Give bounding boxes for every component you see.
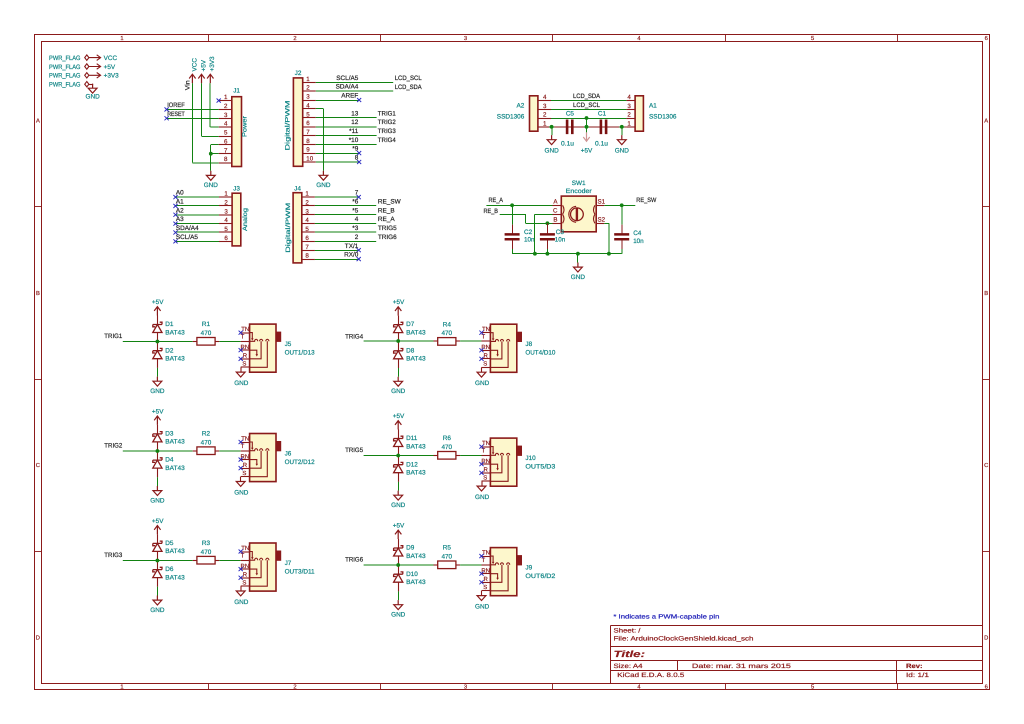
no-connect X on J6 TN bbox=[239, 440, 243, 444]
svg-text:R: R bbox=[243, 462, 248, 469]
connector J4 body bbox=[293, 193, 302, 263]
jack J9 refdes bbox=[525, 565, 532, 572]
svg-text:2: 2 bbox=[293, 35, 296, 42]
wire TRIG5 bbox=[364, 455, 434, 457]
A2 pin 4 stub bbox=[538, 100, 551, 102]
connector J3 body bbox=[232, 193, 241, 246]
diode D2 value BAT43 bbox=[165, 356, 185, 363]
diode D12 value BAT43 bbox=[406, 470, 426, 477]
encoder pin C name bbox=[553, 207, 558, 214]
jack J10 pin T stub bbox=[482, 455, 491, 457]
label RE_B at J4 bbox=[378, 207, 395, 214]
connector J2 body bbox=[293, 78, 302, 166]
jack J9 pin RN stub bbox=[482, 573, 491, 575]
label TRIG6 bbox=[345, 557, 363, 564]
diode D4 pins bbox=[157, 451, 159, 478]
junction TRIG6 bbox=[396, 563, 400, 567]
jack J7 pin RN name bbox=[241, 563, 250, 570]
J2 pin 5 number bbox=[306, 111, 310, 118]
ground GND under D8 bbox=[391, 377, 406, 396]
svg-text:GND: GND bbox=[85, 93, 100, 100]
svg-text:6: 6 bbox=[306, 120, 310, 127]
jack J7 pin TN name bbox=[241, 545, 249, 552]
J2 pin 9 name *9 bbox=[352, 146, 358, 153]
diode D1 pins bbox=[157, 316, 159, 342]
svg-text:9: 9 bbox=[306, 147, 310, 154]
label TRIG4 at J2 bbox=[378, 137, 396, 144]
encoder SW1 body bbox=[561, 196, 596, 232]
jack J8 pin T name bbox=[481, 334, 485, 341]
wire C4 to rail bbox=[621, 240, 623, 253]
encoder SW1 value Encoder bbox=[566, 188, 593, 195]
connector J4 value Digital/PWM bbox=[285, 203, 292, 253]
svg-text:Analog: Analog bbox=[242, 207, 249, 231]
svg-text:GND: GND bbox=[150, 498, 165, 505]
svg-text:R1: R1 bbox=[202, 321, 211, 328]
junction C1 right bbox=[620, 125, 624, 129]
svg-text:BAT43: BAT43 bbox=[406, 553, 426, 560]
wire C2 to rail bbox=[512, 240, 514, 253]
jack J5 value OUT1/D13 bbox=[285, 349, 315, 356]
capacitor C2 refdes bbox=[524, 229, 533, 236]
wire D6 to GND bbox=[157, 587, 159, 596]
diode D12 bbox=[394, 462, 403, 472]
power symbol +5V above D9 bbox=[393, 523, 405, 539]
svg-text:3: 3 bbox=[627, 103, 631, 110]
J3 pin 1 number bbox=[224, 191, 228, 198]
capacitor C5 refdes bbox=[566, 111, 575, 118]
J3 pin 3 number bbox=[224, 208, 228, 215]
no-connect X on J2 pin9 bbox=[357, 151, 361, 155]
wire J2 pin1 LCD_SCL bbox=[316, 82, 393, 84]
jack J9 pin TN name bbox=[482, 550, 490, 557]
svg-text:S: S bbox=[242, 360, 246, 367]
svg-text:GND: GND bbox=[571, 274, 586, 281]
label LCD_SDA between displays bbox=[573, 93, 601, 100]
wire +3V3 to J1 pin 4 bbox=[210, 83, 219, 127]
svg-text:3: 3 bbox=[224, 112, 228, 119]
wire IOREF bbox=[167, 109, 219, 111]
J3 pin 4 stub bbox=[219, 223, 232, 225]
diode D8 pins bbox=[398, 341, 400, 368]
svg-text:J3: J3 bbox=[233, 185, 240, 192]
label TRIG2 at J2 bbox=[378, 119, 396, 126]
resistor R3 value 470 bbox=[201, 549, 212, 556]
wire SDA/A4 to J3 bbox=[176, 231, 220, 233]
svg-text:470: 470 bbox=[201, 330, 212, 337]
J3 pin 3 name A2 bbox=[176, 207, 184, 214]
connector A2 body bbox=[530, 96, 538, 131]
jack J9 body bbox=[490, 548, 516, 596]
junction at J1 pin 7 bbox=[209, 152, 213, 156]
no-connect X on J7 R bbox=[239, 576, 243, 580]
no-connect X on J4 pin8 bbox=[357, 257, 361, 261]
jack J8 bump bbox=[517, 332, 522, 341]
svg-text:TRIG4: TRIG4 bbox=[345, 333, 363, 340]
svg-text:RE_SW: RE_SW bbox=[636, 197, 657, 204]
jack J10 pin S stub bbox=[482, 480, 491, 482]
resistor R1 refdes bbox=[202, 321, 211, 328]
diode D4 refdes bbox=[165, 457, 174, 464]
svg-text:OUT1/D13: OUT1/D13 bbox=[285, 349, 315, 356]
wire J2 pin3 AREF bbox=[316, 100, 359, 102]
svg-text:TRIG1: TRIG1 bbox=[378, 110, 396, 117]
svg-text:470: 470 bbox=[441, 330, 452, 337]
J1 pin 1 stub bbox=[219, 100, 232, 102]
diode D4 bbox=[153, 458, 162, 468]
jack J9 internal contacts bbox=[490, 556, 509, 591]
jack J9 pin R name bbox=[484, 576, 489, 583]
resistor R6 stubs bbox=[434, 455, 461, 457]
J3 pin 4 number bbox=[224, 217, 228, 224]
wire S2 drop bbox=[604, 223, 609, 253]
connector J1 refdes bbox=[233, 87, 240, 94]
diode D7 bbox=[394, 322, 403, 332]
A2 pin 3 stub bbox=[538, 109, 551, 111]
svg-text:GND: GND bbox=[544, 148, 559, 155]
wire J1 pin 7 to GND bbox=[211, 154, 219, 171]
svg-text:D8: D8 bbox=[406, 347, 415, 354]
svg-text:RN: RN bbox=[241, 563, 250, 570]
wire D2 to GND bbox=[157, 368, 159, 377]
label RE_B bbox=[484, 208, 499, 215]
A1 pin 2 stub bbox=[626, 118, 635, 120]
svg-text:8: 8 bbox=[306, 138, 310, 145]
resistor R6 value 470 bbox=[441, 444, 452, 451]
resistor R3 stubs bbox=[193, 560, 220, 562]
power symbol +5V above D11 bbox=[393, 413, 405, 429]
resistor R5 refdes bbox=[443, 545, 452, 552]
ground GND at J9 sleeve bbox=[475, 591, 490, 611]
svg-text:3: 3 bbox=[464, 35, 467, 42]
jack J6 value OUT2/D12 bbox=[285, 459, 315, 466]
power symbol +3V3 bbox=[89, 73, 119, 80]
svg-text:*5: *5 bbox=[352, 207, 358, 214]
J3 pin 6 number bbox=[224, 235, 228, 242]
svg-text:LCD_SDA: LCD_SDA bbox=[395, 84, 423, 91]
no-connect X on J8 R bbox=[479, 357, 483, 361]
jack J7 pin R name bbox=[243, 571, 248, 578]
wire R1 to J5 bbox=[219, 341, 240, 343]
power symbol +5V at J1 bbox=[198, 59, 207, 83]
svg-text:6: 6 bbox=[224, 138, 228, 145]
power symbol +3V3 bbox=[207, 56, 216, 83]
J1 pin 6 number bbox=[224, 138, 228, 145]
svg-text:LCD_SCL: LCD_SCL bbox=[573, 102, 600, 109]
svg-text:KiCad E.D.A. 8.0.5: KiCad E.D.A. 8.0.5 bbox=[617, 672, 685, 679]
label TRIG1 bbox=[104, 333, 122, 340]
wire J2 pin8 TRIG4 bbox=[316, 144, 377, 146]
svg-text:RN: RN bbox=[481, 344, 490, 351]
jack J6 pin RN name bbox=[241, 453, 250, 460]
svg-text:TRIG3: TRIG3 bbox=[104, 552, 122, 559]
J4 pin 6 stub bbox=[302, 241, 315, 243]
jack J6 bump bbox=[276, 442, 281, 451]
svg-text:TRIG6: TRIG6 bbox=[345, 557, 363, 564]
svg-text:GND: GND bbox=[475, 380, 490, 387]
J2 pin 7 number bbox=[306, 129, 310, 136]
J2 pin 9 stub bbox=[303, 153, 316, 155]
jack J5 pin T name bbox=[241, 334, 245, 341]
junction TRIG1 bbox=[156, 340, 160, 344]
svg-text:A1: A1 bbox=[649, 103, 657, 110]
svg-text:3: 3 bbox=[464, 684, 467, 691]
junction RE_A C2 bbox=[510, 203, 514, 207]
note * Indicates a PWM-capable pin bbox=[613, 614, 719, 621]
jack J5 pin T stub bbox=[241, 341, 250, 343]
connector J1 value Power bbox=[241, 115, 248, 137]
resistor R6 refdes bbox=[443, 435, 452, 442]
svg-text:C1: C1 bbox=[598, 111, 607, 118]
svg-text:7: 7 bbox=[224, 147, 228, 154]
svg-text:TRIG2: TRIG2 bbox=[104, 443, 122, 450]
svg-text:A2: A2 bbox=[516, 103, 524, 110]
svg-text:*3: *3 bbox=[352, 225, 358, 232]
wire J4 pin6 TRIG6 bbox=[315, 241, 376, 243]
diode D8 refdes bbox=[406, 347, 415, 354]
svg-text:BAT43: BAT43 bbox=[165, 356, 185, 363]
no-connect X on J9 RN bbox=[479, 572, 483, 576]
svg-text:+5V: +5V bbox=[152, 409, 164, 416]
no-connect X on J5 R bbox=[239, 357, 243, 361]
J1 pin 3 stub bbox=[219, 118, 232, 120]
jack J8 pin R stub bbox=[482, 358, 491, 360]
power flag PWR_FLAG #3 bbox=[49, 73, 89, 80]
J1 pin 5 number bbox=[224, 130, 228, 137]
power symbol VCC bbox=[189, 58, 198, 83]
jack J6 pin S name bbox=[242, 470, 246, 477]
svg-text:TN: TN bbox=[482, 550, 490, 557]
capacitor C4 refdes bbox=[633, 230, 642, 237]
wire R5 to J9 bbox=[460, 564, 481, 566]
power symbol +5V above D1 bbox=[152, 299, 164, 315]
power flag PWR_FLAG #1 bbox=[49, 55, 89, 62]
svg-text:Vin: Vin bbox=[184, 80, 191, 90]
title block Size bbox=[614, 663, 644, 670]
svg-text:SDA/A4: SDA/A4 bbox=[336, 84, 359, 91]
wire TRIG2 bbox=[123, 450, 193, 452]
svg-text:RE_A: RE_A bbox=[489, 197, 504, 204]
svg-text:S: S bbox=[242, 470, 246, 477]
encoder pin A stub bbox=[553, 205, 562, 207]
A2 pin 3 number bbox=[543, 103, 547, 110]
diode D2 bbox=[153, 348, 162, 358]
svg-text:GND: GND bbox=[475, 494, 490, 501]
ground GND under D2 bbox=[150, 377, 165, 396]
J2 pin 8 number bbox=[306, 138, 310, 145]
J2 pin 3 name AREF bbox=[341, 93, 358, 100]
wire SCL/A5 to J3 bbox=[176, 241, 220, 243]
jack J5 body bbox=[250, 324, 276, 372]
svg-text:A1: A1 bbox=[176, 199, 184, 206]
diode D10 pins bbox=[398, 565, 400, 592]
svg-text:J10: J10 bbox=[525, 455, 536, 462]
svg-text:R5: R5 bbox=[443, 545, 452, 552]
jack J7 pin S name bbox=[242, 579, 246, 586]
svg-text:D3: D3 bbox=[165, 431, 174, 438]
label TRIG2 bbox=[104, 443, 122, 450]
wire Vin/VCC to J1 pin 8 bbox=[192, 83, 218, 163]
no-connect X on A0 bbox=[173, 195, 177, 199]
diode D5 pins bbox=[157, 534, 159, 560]
svg-text:D2: D2 bbox=[165, 347, 174, 354]
resistor R5 bbox=[438, 561, 456, 569]
diode D7 value BAT43 bbox=[406, 329, 426, 336]
svg-text:SSD1306: SSD1306 bbox=[497, 113, 525, 120]
J4 pin 6 name 2 bbox=[355, 234, 359, 241]
J1 pin 3 number bbox=[224, 112, 228, 119]
svg-text:+5V: +5V bbox=[152, 299, 164, 306]
svg-text:4: 4 bbox=[224, 121, 228, 128]
J2 pin 1 number bbox=[306, 76, 310, 83]
label TRIG5 bbox=[345, 447, 363, 454]
svg-text:1: 1 bbox=[224, 94, 228, 101]
svg-text:TRIG6: TRIG6 bbox=[378, 234, 397, 241]
jack J6 pin T name bbox=[241, 443, 245, 450]
svg-text:TRIG5: TRIG5 bbox=[345, 447, 363, 454]
jack J5 pin TN stub bbox=[241, 332, 250, 334]
svg-text:GND: GND bbox=[391, 502, 406, 509]
svg-text:OUT4/D10: OUT4/D10 bbox=[525, 350, 555, 357]
svg-text:RN: RN bbox=[481, 458, 490, 465]
diode D6 value BAT43 bbox=[165, 574, 185, 581]
svg-text:SDA/A4: SDA/A4 bbox=[176, 225, 199, 232]
jack J7 pin R stub bbox=[241, 577, 250, 579]
svg-text:S: S bbox=[483, 361, 487, 368]
svg-text:2: 2 bbox=[305, 200, 309, 207]
label Vin bbox=[184, 80, 191, 90]
connector A2 value SSD1306 bbox=[497, 113, 525, 120]
svg-text:B: B bbox=[553, 216, 557, 223]
svg-text:470: 470 bbox=[201, 439, 212, 446]
jack J6 refdes bbox=[285, 451, 292, 458]
J4 pin 6 number bbox=[305, 235, 309, 242]
svg-text:TN: TN bbox=[241, 435, 249, 442]
svg-text:2: 2 bbox=[224, 103, 228, 110]
svg-text:Date: mar. 31 mars 2015: Date: mar. 31 mars 2015 bbox=[692, 663, 792, 670]
jack J9 pin S name bbox=[483, 584, 487, 591]
junction +5V drop bbox=[585, 125, 589, 129]
svg-text:8: 8 bbox=[305, 253, 309, 260]
encoder pin A name bbox=[553, 198, 558, 205]
connector J2 refdes bbox=[295, 70, 302, 77]
resistor R3 bbox=[197, 556, 215, 564]
connector A1 value SSD1306 bbox=[649, 113, 677, 120]
diode D11 bbox=[394, 436, 403, 446]
J3 pin 2 name A1 bbox=[176, 199, 184, 206]
no-connect X on J10 RN bbox=[479, 462, 483, 466]
jack J10 refdes bbox=[525, 455, 536, 462]
svg-text:D4: D4 bbox=[165, 457, 174, 464]
svg-text:BAT43: BAT43 bbox=[165, 548, 185, 555]
svg-text:2: 2 bbox=[293, 684, 296, 691]
svg-text:S1: S1 bbox=[598, 198, 606, 205]
J2 pin 5 name 13 bbox=[351, 110, 359, 117]
no-connect X on SDA/A4 bbox=[173, 230, 177, 234]
diode D5 value BAT43 bbox=[165, 548, 185, 555]
svg-text:A2: A2 bbox=[176, 207, 184, 214]
power symbol +5V down bbox=[581, 132, 593, 154]
jack J10 pin RN name bbox=[481, 458, 490, 465]
svg-text:RE_SW: RE_SW bbox=[378, 199, 402, 206]
svg-text:BAT43: BAT43 bbox=[406, 470, 426, 477]
jack J5 refdes bbox=[285, 341, 292, 348]
jack J8 pin S name bbox=[483, 361, 487, 368]
diode D6 bbox=[153, 567, 162, 577]
svg-text:Encoder: Encoder bbox=[566, 188, 593, 195]
A1 pin 4 number bbox=[627, 94, 631, 101]
svg-text:J5: J5 bbox=[285, 341, 292, 348]
svg-text:Title:: Title: bbox=[614, 649, 646, 659]
encoder pin C stub bbox=[553, 214, 562, 216]
junction C5 left bbox=[550, 125, 554, 129]
jack J6 pin TN name bbox=[241, 435, 249, 442]
svg-text:D: D bbox=[36, 636, 40, 642]
diode D3 refdes bbox=[165, 431, 174, 438]
jack J6 body bbox=[250, 434, 276, 482]
jack J6 pin T stub bbox=[241, 450, 250, 452]
svg-text:TRIG5: TRIG5 bbox=[378, 225, 397, 232]
svg-text:File: ArduinoClockGenShield.ki: File: ArduinoClockGenShield.kicad_sch bbox=[614, 635, 755, 642]
power symbol +5V bbox=[89, 64, 116, 71]
svg-text:+5V: +5V bbox=[393, 413, 405, 420]
wire TRIG6 bbox=[364, 564, 434, 566]
connector A1 refdes bbox=[649, 103, 657, 110]
resistor R4 stubs bbox=[434, 340, 461, 342]
encoder right contacts bbox=[594, 205, 595, 223]
svg-text:Id: 1/1: Id: 1/1 bbox=[906, 672, 930, 679]
J3 pin 6 stub bbox=[219, 241, 232, 243]
svg-text:4: 4 bbox=[627, 94, 631, 101]
svg-text:RN: RN bbox=[241, 344, 250, 351]
J2 pin 4 number bbox=[306, 102, 310, 109]
svg-text:GND: GND bbox=[204, 182, 219, 189]
svg-text:6: 6 bbox=[224, 235, 228, 242]
wire J4 pin5 TRIG5 bbox=[315, 231, 376, 233]
no-connect X on J10 R bbox=[479, 471, 483, 475]
A2 pin 4 number bbox=[543, 94, 547, 101]
wire +5V drop bbox=[586, 118, 588, 132]
label RE_A bbox=[489, 197, 504, 204]
svg-text:AREF: AREF bbox=[341, 93, 358, 100]
ground GND under A1 bbox=[615, 135, 630, 154]
svg-text:4: 4 bbox=[305, 217, 309, 224]
jack J6 pin S stub bbox=[241, 476, 250, 478]
junction RE_SW C4 bbox=[620, 203, 624, 207]
junction rail S2 bbox=[607, 252, 611, 256]
ground GND under encoder bbox=[571, 263, 586, 282]
svg-text:BAT43: BAT43 bbox=[406, 579, 426, 586]
jack J7 pin T stub bbox=[241, 560, 250, 562]
wire D10 to GND bbox=[398, 591, 400, 600]
diode D5 refdes bbox=[165, 540, 174, 547]
ground GND under D6 bbox=[150, 596, 165, 615]
resistor R3 refdes bbox=[202, 540, 211, 547]
encoder pin S2 stub bbox=[596, 223, 604, 225]
svg-text:J8: J8 bbox=[525, 341, 532, 348]
svg-text:2: 2 bbox=[627, 112, 631, 119]
jack J7 body bbox=[250, 543, 276, 591]
svg-text:GND: GND bbox=[391, 612, 406, 619]
wire R2 to J6 bbox=[219, 450, 240, 452]
svg-text:6: 6 bbox=[985, 684, 988, 691]
wire encoder ground rail bbox=[512, 253, 622, 255]
J3 pin 4 name A3 bbox=[176, 216, 184, 223]
no-connect X on J9 TN bbox=[479, 554, 483, 558]
svg-text:R: R bbox=[484, 353, 489, 360]
J4 pin 7 stub bbox=[302, 250, 315, 252]
jack J5 pin S stub bbox=[241, 366, 250, 368]
